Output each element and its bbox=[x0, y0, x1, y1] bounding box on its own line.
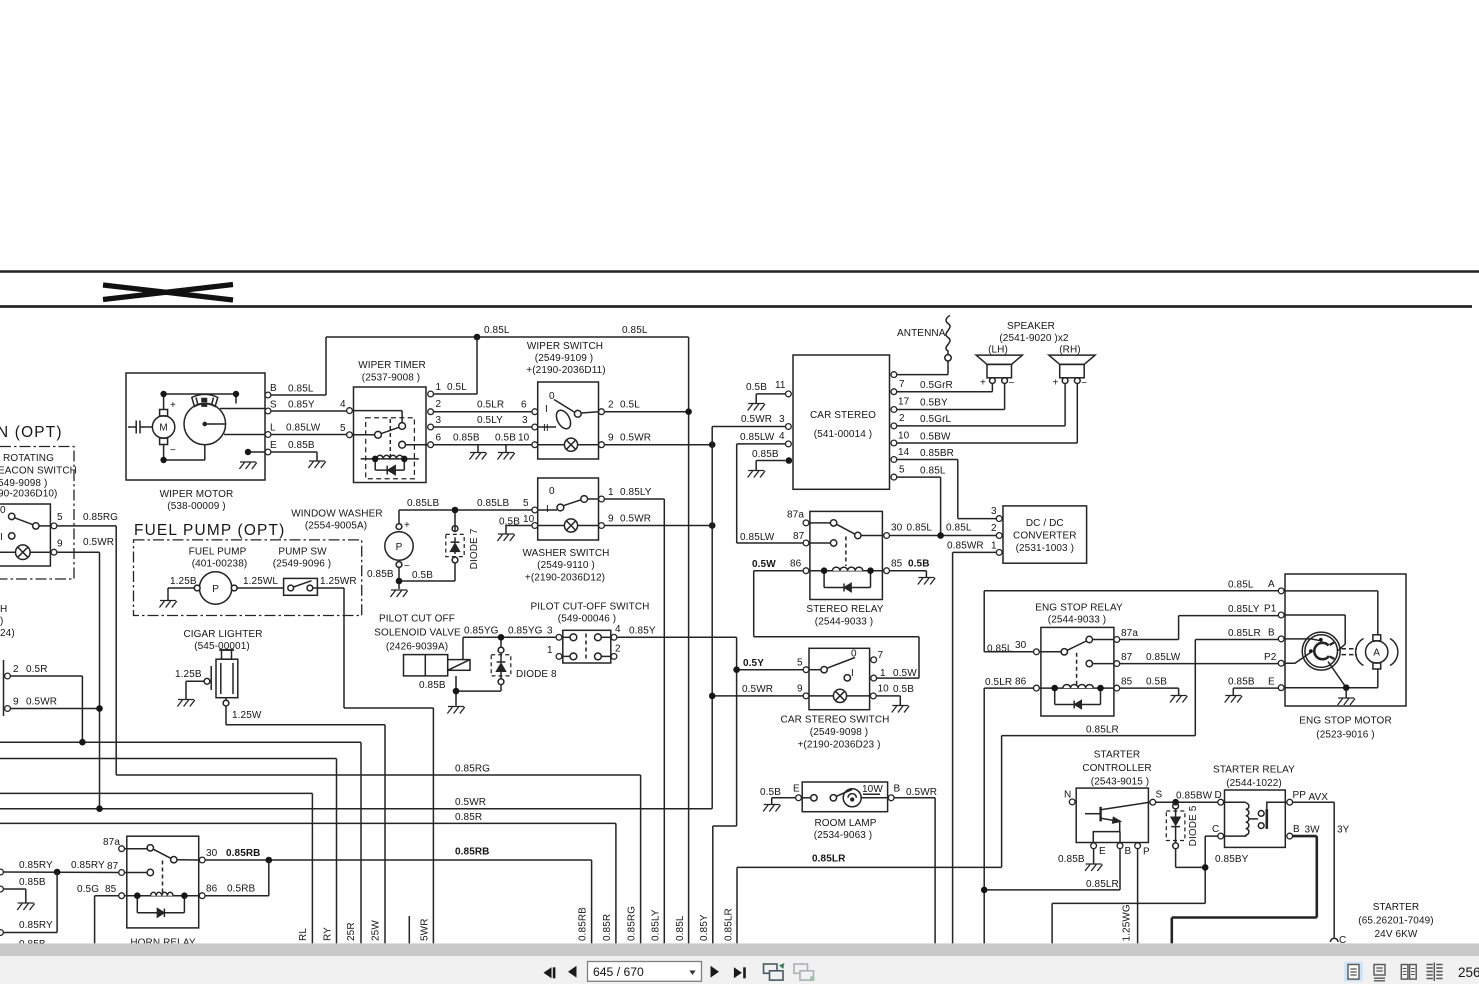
pin 14 bbox=[891, 457, 897, 463]
svg-text:0.85B: 0.85B bbox=[1228, 677, 1255, 688]
node solenoid 0.85B bbox=[453, 688, 460, 695]
svg-text:0.85B: 0.85B bbox=[419, 680, 446, 691]
wire 0.5R bbox=[10, 676, 82, 742]
wire 0.5LR timer2 to wiper switch 6 bbox=[434, 411, 532, 413]
pin 5 bbox=[891, 474, 897, 480]
svg-text:0.85YG: 0.85YG bbox=[508, 626, 543, 637]
timer diode bbox=[375, 459, 404, 470]
svg-text:9: 9 bbox=[13, 697, 19, 708]
svg-text:0.5RB: 0.5RB bbox=[227, 884, 256, 895]
wire 0.85RG beacon5 riser bbox=[57, 526, 116, 775]
pin 6 bbox=[532, 409, 538, 415]
pin 10 bbox=[891, 440, 897, 446]
svg-text:0.85WR: 0.85WR bbox=[947, 541, 984, 552]
svg-text:10W: 10W bbox=[862, 784, 883, 795]
pin 5 bbox=[347, 432, 353, 438]
svg-text:0: 0 bbox=[549, 486, 555, 497]
pin 2 bbox=[5, 673, 11, 679]
wire 0.85BW S to relay D bbox=[1156, 801, 1218, 803]
svg-text:CIGAR LIGHTER: CIGAR LIGHTER bbox=[183, 629, 262, 640]
svg-text:0.85L: 0.85L bbox=[920, 466, 946, 477]
ground washer10 bbox=[497, 534, 514, 541]
layout two-page icon bbox=[1401, 965, 1416, 980]
wire 0.85WR dcdc1 bbox=[953, 552, 997, 943]
pin 0.85RY lower bbox=[0, 930, 3, 936]
pin 86 esr bbox=[1034, 685, 1040, 691]
svg-text:0.85L: 0.85L bbox=[484, 325, 510, 336]
svg-text:1.25WR: 1.25WR bbox=[320, 576, 357, 587]
nav first-page button bbox=[544, 967, 552, 978]
svg-text:0.5LY: 0.5LY bbox=[477, 415, 503, 426]
svg-text:0.85L: 0.85L bbox=[622, 325, 648, 336]
svg-text:(2426-9039A): (2426-9039A) bbox=[386, 642, 448, 653]
svg-text:DIODE 7: DIODE 7 bbox=[469, 528, 480, 569]
svg-text:87a: 87a bbox=[103, 837, 120, 848]
svg-text:S: S bbox=[270, 400, 277, 411]
ground css10 bbox=[892, 706, 909, 713]
antenna bbox=[897, 316, 951, 375]
stereo relay diode bbox=[824, 571, 870, 588]
pin B bbox=[1278, 636, 1284, 642]
svg-text:PILOT CUT-OFF SWITCH: PILOT CUT-OFF SWITCH bbox=[530, 602, 649, 613]
svg-text:PILOT CUT OFF: PILOT CUT OFF bbox=[379, 614, 455, 625]
svg-text:RL: RL bbox=[298, 928, 309, 941]
svg-text:30: 30 bbox=[206, 848, 218, 859]
gray separator bar bbox=[0, 943, 1479, 956]
wire 0.5B roomlamp ground bbox=[772, 798, 796, 805]
svg-text:C: C bbox=[1212, 824, 1219, 835]
svg-text:(2549-9098 ): (2549-9098 ) bbox=[810, 727, 868, 738]
bus B 0.85RY riser bbox=[0, 759, 337, 944]
washer contacts bbox=[557, 504, 564, 511]
svg-text:STARTER RELAY: STARTER RELAY bbox=[1213, 765, 1295, 776]
pin E sc bbox=[1091, 843, 1097, 849]
switch lamp bbox=[564, 438, 577, 451]
fuel pump dash-dot enclosure bbox=[134, 540, 362, 616]
svg-text:WIPER TIMER: WIPER TIMER bbox=[358, 360, 426, 371]
pump switch box bbox=[284, 578, 318, 595]
eng stop relay diode bbox=[1055, 688, 1101, 704]
svg-text:7: 7 bbox=[878, 650, 884, 661]
svg-text:0.85Y: 0.85Y bbox=[288, 400, 315, 411]
wire 0.5GrL bbox=[897, 384, 1065, 426]
dc/dc box bbox=[1003, 506, 1087, 563]
ground relay85 bbox=[918, 578, 935, 585]
pin E room lamp bbox=[796, 795, 802, 801]
distributor disc bbox=[1302, 632, 1340, 670]
wire 0.85YG solenoid riser bbox=[463, 637, 556, 659]
svg-text:1.25B: 1.25B bbox=[170, 576, 197, 587]
svg-text:H: H bbox=[0, 604, 7, 615]
wire top bbox=[164, 394, 236, 410]
svg-text:(2537-9008 ): (2537-9008 ) bbox=[362, 373, 420, 384]
gear wheel bbox=[184, 403, 226, 445]
wire 0.85RY lower up to node bbox=[3, 872, 57, 933]
svg-text:0.5B: 0.5B bbox=[1146, 677, 1167, 688]
svg-text:RY: RY bbox=[323, 927, 334, 941]
svg-text:86: 86 bbox=[1015, 677, 1027, 688]
svg-text:ENG STOP MOTOR: ENG STOP MOTOR bbox=[1299, 716, 1392, 727]
svg-text:87: 87 bbox=[107, 861, 119, 872]
wire 0.85LW L to timer pin5 bbox=[271, 434, 347, 436]
svg-text:(2549-9110 ): (2549-9110 ) bbox=[537, 560, 595, 571]
wire 0.5L wiper sw 2 to 0.85L riser bbox=[604, 411, 688, 413]
svg-text:6: 6 bbox=[521, 400, 527, 411]
pin 5 beacon bbox=[51, 523, 57, 529]
svg-text:10: 10 bbox=[878, 684, 890, 695]
cam bbox=[1314, 643, 1329, 659]
svg-text:0.5R: 0.5R bbox=[26, 664, 48, 675]
svg-text:0.5WR: 0.5WR bbox=[620, 514, 651, 525]
beacon lamp bbox=[15, 545, 30, 560]
wire 0.5WR wiper sw 9 to riser bbox=[604, 444, 712, 446]
svg-text:ANTENNA: ANTENNA bbox=[897, 328, 946, 339]
node 0.85LB bbox=[452, 507, 459, 514]
cigar lighter body bbox=[222, 650, 232, 659]
svg-text:2: 2 bbox=[608, 400, 614, 411]
rotary contacts bbox=[554, 400, 575, 413]
svg-text:E: E bbox=[1268, 677, 1275, 688]
svg-text:1.25W: 1.25W bbox=[232, 710, 262, 721]
svg-text:(2534-9063 ): (2534-9063 ) bbox=[814, 830, 872, 841]
pin 7 bbox=[891, 389, 897, 395]
transistor bbox=[1099, 807, 1101, 822]
pin 11 bbox=[786, 391, 792, 397]
node pin9/beacon9 bbox=[96, 705, 103, 712]
pin E bbox=[265, 449, 271, 455]
svg-text:0.5WR: 0.5WR bbox=[455, 797, 486, 808]
svg-text:E: E bbox=[270, 440, 277, 451]
svg-text:(2543-9015 ): (2543-9015 ) bbox=[1091, 777, 1149, 788]
svg-text:0.85RY: 0.85RY bbox=[71, 860, 105, 871]
svg-text:0.85Y: 0.85Y bbox=[629, 626, 656, 637]
wire 0.5Y css5 bbox=[737, 669, 804, 671]
wire riser to diode7 bbox=[454, 510, 456, 581]
svg-text:P: P bbox=[1143, 847, 1150, 858]
layout single page selected bbox=[1344, 962, 1363, 982]
wire 0.85LY washer1 riser bbox=[604, 499, 664, 943]
room lamp bulb bbox=[843, 789, 861, 807]
pin PP bbox=[1287, 799, 1293, 805]
svg-text:0.5B: 0.5B bbox=[908, 559, 930, 570]
wiper switch box bbox=[538, 382, 599, 459]
svg-text:II: II bbox=[543, 423, 549, 434]
pin 9 bbox=[599, 523, 605, 529]
svg-text:1: 1 bbox=[991, 541, 997, 552]
pin 0.85B bbox=[0, 886, 3, 892]
svg-text:0.85RY: 0.85RY bbox=[19, 860, 53, 871]
svg-text:3: 3 bbox=[436, 415, 442, 426]
svg-text:PUMP SW: PUMP SW bbox=[278, 547, 327, 558]
node 0.85YG diode8 bbox=[498, 634, 505, 641]
pin 87 bbox=[119, 870, 125, 876]
wire 0.85B ground bbox=[3, 889, 25, 903]
pin 6 bbox=[428, 442, 434, 448]
svg-text:ROTATING: ROTATING bbox=[3, 453, 54, 464]
svg-text:0.85RB: 0.85RB bbox=[455, 847, 490, 858]
svg-text:3W: 3W bbox=[1305, 825, 1321, 836]
svg-text:0.85BY: 0.85BY bbox=[1215, 854, 1249, 865]
svg-text:−: − bbox=[170, 445, 176, 456]
stereo relay coil bbox=[809, 570, 884, 572]
stereo relay box bbox=[810, 511, 883, 599]
timer armature dashed link bbox=[389, 419, 391, 457]
page border rule top bbox=[0, 270, 1479, 273]
pin 5 css bbox=[803, 667, 809, 673]
svg-text:0.85R: 0.85R bbox=[455, 812, 482, 823]
wire 0.5LR esr86 riser bbox=[984, 688, 1033, 943]
room lamp box bbox=[802, 782, 887, 812]
svg-text:0.5BY: 0.5BY bbox=[920, 398, 948, 409]
wire 0.5BY bbox=[897, 384, 1005, 410]
pin 86 stereo relay bbox=[803, 568, 809, 574]
svg-text:0.85LW: 0.85LW bbox=[286, 423, 321, 434]
washer lamp bbox=[564, 519, 577, 532]
svg-text:(LH): (LH) bbox=[988, 345, 1008, 356]
svg-text:P: P bbox=[396, 542, 403, 553]
svg-text:B: B bbox=[270, 383, 277, 394]
page border rule bottom bbox=[0, 305, 1472, 308]
svg-text:0.85LW: 0.85LW bbox=[1146, 652, 1181, 663]
svg-text:STARTER: STARTER bbox=[1373, 902, 1419, 913]
svg-text:B: B bbox=[1125, 846, 1132, 857]
internal wires bbox=[1284, 591, 1378, 635]
pin 87a bbox=[119, 846, 125, 852]
ground cigar lighter bbox=[177, 700, 194, 707]
svg-text:E: E bbox=[1099, 846, 1106, 857]
pin D bbox=[1218, 799, 1224, 805]
pin 10 bbox=[532, 442, 538, 448]
pin 2 dcdc bbox=[996, 533, 1002, 539]
svg-text:0.85LR: 0.85LR bbox=[1228, 628, 1261, 639]
svg-text:10: 10 bbox=[898, 431, 910, 442]
pin 1 css bbox=[871, 675, 877, 681]
pin 86 bbox=[199, 893, 205, 899]
svg-text:0.5GrL: 0.5GrL bbox=[920, 414, 952, 425]
pin 30 stereo relay bbox=[884, 533, 890, 539]
svg-text:0.85L: 0.85L bbox=[1228, 580, 1254, 591]
pin P1 bbox=[1278, 612, 1284, 618]
wire 1.25WG scP bbox=[1137, 849, 1139, 944]
pin E bbox=[1278, 685, 1284, 691]
svg-text:(549-00046 ): (549-00046 ) bbox=[558, 614, 616, 625]
pin 1 bbox=[556, 654, 562, 660]
pin S bbox=[265, 408, 271, 414]
motor A bbox=[1366, 641, 1388, 663]
svg-text:0.5W: 0.5W bbox=[893, 668, 917, 679]
pin 9 css bbox=[803, 693, 809, 699]
svg-text:0.85R: 0.85R bbox=[602, 914, 613, 941]
svg-text:0.5L: 0.5L bbox=[620, 400, 640, 411]
svg-text:2: 2 bbox=[991, 523, 997, 534]
pin B room lamp bbox=[888, 795, 894, 801]
wire washer minus to 0.85B node bbox=[399, 567, 455, 589]
pin 85 stereo relay bbox=[884, 568, 890, 574]
svg-text:B: B bbox=[894, 784, 901, 795]
node 0.85L top bus bbox=[474, 334, 481, 341]
bus D 0.85RL bbox=[0, 793, 312, 943]
pin 7 css bbox=[871, 657, 877, 663]
svg-text:0.5WR: 0.5WR bbox=[741, 414, 772, 425]
svg-text:4: 4 bbox=[779, 431, 785, 442]
pin P2 bbox=[1278, 660, 1284, 666]
svg-text:24): 24) bbox=[0, 628, 15, 639]
svg-text:0.85RG: 0.85RG bbox=[455, 764, 490, 775]
speaker RH bbox=[1049, 355, 1095, 383]
svg-text:0.5WR: 0.5WR bbox=[906, 787, 937, 798]
svg-text:1.25WL: 1.25WL bbox=[243, 576, 278, 587]
svg-text:0.85BW: 0.85BW bbox=[1176, 791, 1213, 802]
svg-text:87a: 87a bbox=[787, 510, 804, 521]
wire 0.5B relay85 ground bbox=[890, 571, 927, 578]
svg-text:0.85L: 0.85L bbox=[907, 523, 933, 534]
svg-text:1: 1 bbox=[436, 382, 442, 393]
pin 4 bbox=[611, 634, 617, 640]
nav next button bbox=[711, 966, 720, 978]
svg-text:87a: 87a bbox=[1121, 628, 1138, 639]
solenoid valve body bbox=[404, 655, 448, 676]
wire 0.85B E to ground bbox=[271, 452, 317, 461]
svg-text:0.85RY: 0.85RY bbox=[19, 920, 53, 931]
svg-text:FUEL PUMP (OPT): FUEL PUMP (OPT) bbox=[134, 522, 285, 539]
svg-text:1.25B: 1.25B bbox=[175, 669, 202, 680]
svg-text:0.85L: 0.85L bbox=[675, 915, 686, 941]
node 0.5WR tap bbox=[709, 693, 716, 700]
wire 0.85LY esr87a to P1 bbox=[1120, 616, 1279, 640]
wire 0.5RB horn86 bbox=[205, 860, 269, 896]
shaft dashes bbox=[1342, 649, 1358, 655]
pin 0.85RY bbox=[0, 869, 3, 875]
ground pin11 bbox=[748, 404, 765, 411]
svg-text:9: 9 bbox=[797, 684, 803, 695]
svg-text:A: A bbox=[1373, 648, 1380, 659]
pin 30 bbox=[199, 857, 205, 863]
diode D7 bbox=[446, 526, 464, 563]
svg-text:9: 9 bbox=[608, 433, 614, 444]
pin 3 bbox=[532, 424, 538, 430]
pin 17 bbox=[891, 407, 897, 413]
wire 0.5W relay86 to css pin1 bbox=[754, 571, 919, 678]
wiper timer box bbox=[354, 387, 427, 483]
svg-text:(401-00238): (401-00238) bbox=[192, 559, 248, 570]
svg-text:10: 10 bbox=[523, 514, 535, 525]
node 0.85BY bbox=[1202, 864, 1209, 871]
svg-text:(2544-1022): (2544-1022) bbox=[1226, 778, 1282, 789]
svg-text:9: 9 bbox=[57, 539, 63, 550]
junction dots wiper motor bbox=[160, 391, 166, 397]
fold X mark bbox=[103, 285, 233, 301]
ground left connector bbox=[17, 903, 34, 910]
ground eng stop motor bbox=[1338, 698, 1355, 705]
svg-text:+(2190-2036D12): +(2190-2036D12) bbox=[525, 573, 605, 584]
toolbar background bbox=[0, 956, 1479, 984]
svg-text:0.5B: 0.5B bbox=[495, 433, 516, 444]
pin 0.85B car stereo bbox=[786, 457, 793, 464]
node 0.85L bbox=[937, 532, 944, 539]
wire 0.85BY diode5 bottom to relay C bbox=[1052, 836, 1218, 943]
svg-text:0.5G: 0.5G bbox=[77, 884, 99, 895]
wire 0.5B css10 ground bbox=[876, 696, 900, 706]
svg-text:0.5WR: 0.5WR bbox=[620, 433, 651, 444]
stub wire bbox=[408, 916, 410, 943]
layout two-page continuous icon bbox=[1427, 963, 1443, 982]
wire 0.5GrR bbox=[897, 384, 993, 392]
ground esr85 bbox=[1170, 696, 1187, 703]
svg-text:24V 6KW: 24V 6KW bbox=[1375, 929, 1418, 940]
bus E 0.5WR bbox=[0, 427, 712, 809]
wire 0.5WR css9 bbox=[712, 695, 803, 697]
bus F 0.85R bbox=[0, 823, 616, 943]
svg-text:87: 87 bbox=[793, 531, 805, 542]
svg-text:−: − bbox=[404, 561, 410, 572]
pin 87 stereo relay bbox=[803, 540, 809, 546]
car stereo switch box bbox=[809, 648, 870, 709]
pin 3 dcdc bbox=[996, 516, 1002, 522]
pin 1 bbox=[599, 496, 605, 502]
pin 87a stereo relay bbox=[803, 520, 809, 526]
svg-text:17: 17 bbox=[898, 397, 910, 408]
wire solenoid bottom 0.85B bbox=[456, 676, 501, 706]
pin 10 bbox=[532, 523, 538, 529]
svg-text:D: D bbox=[1215, 790, 1222, 801]
svg-text:5: 5 bbox=[899, 465, 905, 476]
svg-text:0.5WR: 0.5WR bbox=[83, 537, 114, 548]
svg-text:1: 1 bbox=[880, 668, 886, 679]
svg-text:0.5BW: 0.5BW bbox=[920, 432, 951, 443]
eng stop relay box bbox=[1041, 627, 1114, 716]
wire 1.25B cigar to ground bbox=[186, 681, 204, 699]
svg-text:2: 2 bbox=[13, 664, 19, 675]
wiper motor box bbox=[126, 373, 265, 480]
svg-text:ROOM LAMP: ROOM LAMP bbox=[814, 818, 876, 829]
svg-text:+: + bbox=[404, 520, 410, 531]
speaker LH bbox=[976, 355, 1022, 383]
svg-text:5: 5 bbox=[523, 498, 529, 509]
svg-text:+: + bbox=[170, 400, 176, 411]
motor M bbox=[152, 416, 174, 438]
snapshot icon active bbox=[764, 964, 784, 980]
svg-text:(541-00014 ): (541-00014 ) bbox=[814, 429, 872, 440]
svg-text:0.5W: 0.5W bbox=[752, 559, 776, 570]
wire 1.25WL bbox=[237, 587, 284, 589]
svg-text:B: B bbox=[1293, 824, 1300, 835]
svg-text:6: 6 bbox=[436, 433, 442, 444]
svg-text:+: + bbox=[980, 378, 986, 389]
svg-text:0.85RB: 0.85RB bbox=[226, 848, 261, 859]
bus C 0.85RG bbox=[116, 775, 640, 943]
svg-text:S: S bbox=[1156, 790, 1163, 801]
svg-text:0.85LR: 0.85LR bbox=[812, 854, 846, 865]
svg-text:3Y: 3Y bbox=[1337, 825, 1350, 836]
beacon dash-dot enclosure bbox=[0, 447, 74, 580]
svg-text:PP: PP bbox=[1293, 790, 1307, 801]
svg-text:E: E bbox=[793, 784, 800, 795]
svg-text:ENG STOP RELAY: ENG STOP RELAY bbox=[1035, 603, 1123, 614]
svg-text:0: 0 bbox=[549, 391, 555, 402]
svg-text:0.5LR: 0.5LR bbox=[477, 400, 504, 411]
svg-text:2: 2 bbox=[436, 399, 442, 410]
pin N bbox=[1069, 799, 1075, 805]
svg-text:WINDOW WASHER: WINDOW WASHER bbox=[291, 509, 382, 520]
node 0.85BW bbox=[1172, 799, 1179, 806]
svg-text:WIPER MOTOR: WIPER MOTOR bbox=[160, 489, 234, 500]
svg-text:0.85Y: 0.85Y bbox=[699, 914, 710, 941]
svg-text:5: 5 bbox=[797, 658, 803, 669]
wire 0.85L esr30 riser to motor A bbox=[984, 591, 1278, 652]
pilot switch box bbox=[563, 630, 611, 663]
css lamp bbox=[833, 689, 846, 702]
pin 85 esr bbox=[1114, 685, 1120, 691]
